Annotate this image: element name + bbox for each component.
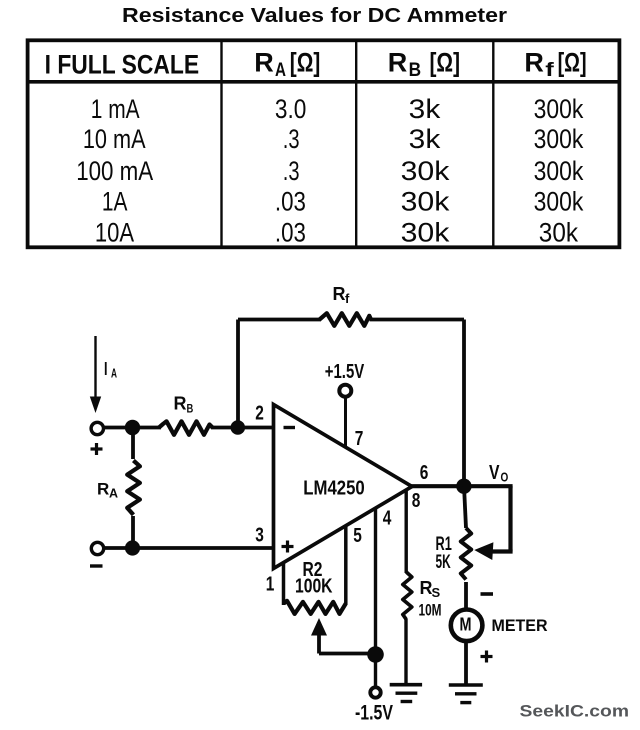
svg-text:100 mA: 100 mA — [76, 156, 153, 186]
wire: pin 4 vertical lead — [374, 508, 377, 687]
ground symbol under meter — [449, 685, 483, 703]
wire: meter bottom lead — [464, 643, 468, 685]
svg-text:30k: 30k — [401, 217, 450, 247]
node: input + terminal (open circle) — [91, 422, 103, 434]
svg-text:[Ω]: [Ω] — [290, 48, 321, 78]
node: input - terminal (open circle) — [91, 542, 103, 554]
svg-text:30k: 30k — [539, 217, 579, 247]
svg-text:1A: 1A — [102, 187, 128, 217]
svg-text:V: V — [489, 462, 500, 484]
table data column 3 — [401, 94, 450, 247]
svg-text:30k: 30k — [401, 187, 450, 217]
junction dot: output node VO — [456, 479, 471, 494]
svg-text:.3: .3 — [283, 156, 300, 186]
svg-text:[Ω]: [Ω] — [558, 48, 587, 78]
svg-text:A: A — [111, 367, 117, 381]
svg-text:300k: 300k — [534, 187, 584, 217]
svg-text:METER: METER — [492, 616, 548, 635]
svg-text:5K: 5K — [436, 552, 451, 573]
header cell: RA [ohm] — [254, 48, 320, 81]
svg-text:A: A — [109, 487, 118, 501]
svg-text:[Ω]: [Ω] — [430, 48, 461, 78]
svg-text:.3: .3 — [283, 124, 300, 154]
wire: input bottom row (pin 3 row) — [104, 546, 274, 550]
R2 wiper arrow (pointing up) — [311, 618, 327, 654]
label RA — [97, 480, 118, 501]
plus sign at input + terminal — [91, 443, 103, 455]
wire: feedback top horizontal — [238, 318, 321, 322]
svg-text:300k: 300k — [534, 94, 584, 124]
wire: RA bottom lead — [131, 516, 135, 548]
svg-text:1: 1 — [266, 574, 275, 596]
wire: feedback right vertical — [462, 320, 466, 487]
svg-text:3k: 3k — [409, 94, 441, 124]
svg-text:10 mA: 10 mA — [83, 124, 146, 154]
resistor RA body (vertical zigzag) — [127, 461, 140, 515]
junction dot: node B on bottom input — [125, 540, 140, 555]
minus sign inside op-amp — [284, 426, 296, 429]
svg-text:R: R — [254, 48, 273, 78]
svg-text:10M: 10M — [419, 601, 442, 620]
svg-text:Resistance Values for DC Ammet: Resistance Values for DC Ammeter — [122, 5, 507, 27]
svg-text:5: 5 — [353, 525, 362, 547]
svg-text:3: 3 — [255, 525, 264, 547]
wire: wiper to -1.5V node — [319, 652, 376, 656]
svg-text:I FULL SCALE: I FULL SCALE — [45, 50, 200, 80]
plus sign below meter — [481, 651, 493, 663]
svg-text:6: 6 — [420, 462, 429, 484]
wire: pin 1 vertical lead to R2 left end — [282, 563, 286, 605]
table column divider 2 — [355, 40, 357, 248]
wire: pin 5 vertical lead to R2 right end — [344, 526, 348, 605]
svg-text:A: A — [275, 60, 286, 81]
table data column 1 — [76, 94, 153, 247]
minus sign above meter — [481, 592, 494, 596]
label RB — [174, 394, 194, 416]
svg-text:R: R — [524, 48, 544, 78]
svg-text:I: I — [104, 359, 108, 379]
svg-text:300k: 300k — [534, 124, 584, 154]
label VO — [489, 462, 508, 485]
junction dot: inverting input node (pin 2) — [231, 420, 246, 435]
op-amp U1 triangle — [274, 405, 413, 569]
svg-text:.03: .03 — [275, 187, 306, 217]
wire: RS bottom lead — [404, 619, 407, 685]
wire: input top row (pin 2 row) — [103, 426, 161, 430]
resistor Rf body (zigzag) — [320, 313, 372, 326]
resistor R2 body (horizontal zigzag, potentiometer) — [284, 601, 346, 614]
svg-text:10A: 10A — [95, 217, 134, 247]
svg-text:S: S — [432, 585, 441, 600]
resistor RS body (vertical zigzag) — [403, 572, 412, 620]
label IA — [104, 359, 117, 381]
table column divider 3 — [492, 40, 494, 248]
R1 wiper arrow — [474, 542, 512, 560]
table data column 2 — [275, 94, 307, 247]
current arrow IA — [90, 336, 101, 413]
svg-text:100K: 100K — [295, 576, 333, 598]
svg-text:R: R — [333, 284, 346, 304]
svg-text:1 mA: 1 mA — [91, 94, 140, 124]
svg-text:.03: .03 — [275, 217, 306, 247]
wire: feedback left vertical — [236, 320, 240, 428]
svg-text:+1.5V: +1.5V — [325, 361, 365, 383]
header cell: Rf [ohm] — [524, 48, 586, 81]
svg-text:B: B — [409, 60, 422, 81]
plus sign inside op-amp — [282, 541, 294, 553]
svg-text:f: f — [345, 291, 350, 306]
wire: R1 bottom lead to meter — [464, 582, 468, 608]
wire: pin 7 lead — [344, 397, 347, 449]
svg-text:SeekIC.com: SeekIC.com — [520, 703, 630, 721]
svg-text:R: R — [174, 394, 187, 414]
+1.5V supply terminal (open circle) — [339, 385, 351, 397]
svg-text:R: R — [388, 48, 408, 78]
minus sign at input - terminal — [90, 564, 103, 567]
resistor R1 body (vertical zigzag) — [461, 528, 471, 580]
label RS — [420, 578, 441, 600]
svg-text:O: O — [501, 470, 509, 485]
svg-text:-1.5V: -1.5V — [355, 702, 393, 725]
svg-text:300k: 300k — [534, 156, 584, 186]
junction dot: input node A — [125, 420, 140, 435]
svg-text:3k: 3k — [409, 124, 441, 154]
table column divider 1 — [220, 40, 222, 248]
svg-text:7: 7 — [355, 428, 364, 450]
wire: pin 8 vertical lead — [405, 490, 408, 574]
svg-text:4: 4 — [383, 508, 392, 530]
label Rf — [333, 284, 351, 306]
ground symbol under RS — [390, 685, 422, 702]
table outer border — [28, 40, 620, 247]
wire: VO right vertical to R1 wiper — [508, 486, 512, 552]
svg-text:M: M — [460, 614, 472, 635]
svg-text:3.0: 3.0 — [275, 94, 307, 124]
table header divider line — [28, 80, 620, 84]
svg-text:LM4250: LM4250 — [303, 477, 365, 500]
wire: R1 top lead — [464, 486, 466, 528]
header cell: RB [ohm] — [388, 48, 460, 81]
meter M1 circle — [451, 610, 483, 642]
svg-text:f: f — [545, 60, 554, 81]
svg-text:2: 2 — [255, 403, 264, 425]
svg-text:B: B — [187, 402, 194, 416]
wire: output from op-amp (pin 6) — [411, 484, 513, 488]
svg-text:8: 8 — [412, 490, 421, 512]
resistor RB body (zigzag) — [159, 421, 213, 435]
-1.5V supply terminal (open circle) — [370, 687, 380, 697]
wire: RA top lead — [131, 428, 135, 460]
svg-text:30k: 30k — [401, 156, 450, 186]
svg-text:R: R — [97, 480, 109, 499]
junction dot: -1.5V node — [367, 646, 384, 663]
table data column 4 — [534, 94, 584, 247]
